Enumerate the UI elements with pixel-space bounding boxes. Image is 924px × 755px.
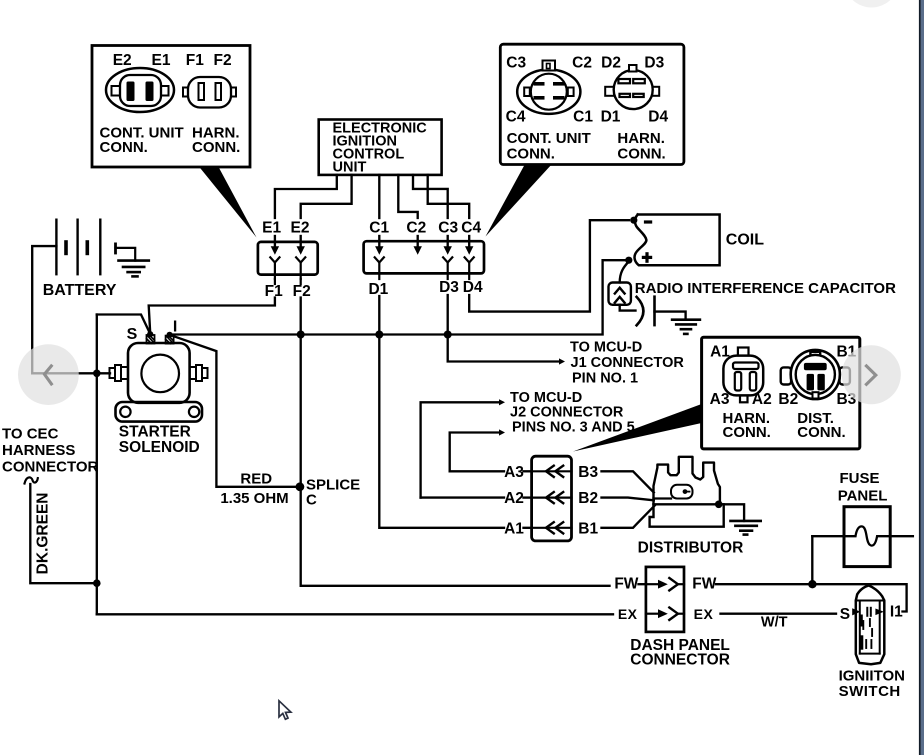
starter solenoid bracket bbox=[116, 402, 203, 422]
wire I terminal to coil positive bbox=[172, 260, 627, 334]
svg-text:F1: F1 bbox=[186, 52, 204, 69]
svg-text:CONN.: CONN. bbox=[100, 139, 148, 156]
svg-text:CONNECTOR: CONNECTOR bbox=[630, 652, 730, 669]
ground at distributor bbox=[731, 520, 761, 523]
svg-text:D1: D1 bbox=[601, 108, 621, 125]
wire B2 to distributor bbox=[602, 498, 654, 501]
connector drawing harn conn (2-pin) bbox=[183, 88, 189, 97]
connector drawing harn conn (3-pin) bbox=[738, 348, 749, 357]
wire connector to capacitor plate bbox=[620, 305, 636, 311]
svg-text:C1: C1 bbox=[369, 219, 389, 236]
distributor pickup detail bbox=[654, 497, 672, 499]
svg-text:CONN.: CONN. bbox=[617, 146, 665, 163]
node D3 crossing junction bbox=[444, 331, 452, 339]
callout pointer from box1 to E1 bbox=[199, 166, 257, 238]
node coil negative bbox=[630, 217, 637, 224]
callout pointer from box3 to A3 block bbox=[573, 404, 702, 452]
node DK.GREEN junction bbox=[93, 579, 101, 587]
capacitor straight plate bbox=[653, 297, 656, 325]
node coil positive bbox=[625, 257, 632, 264]
svg-text:S: S bbox=[840, 606, 850, 623]
svg-text:TO MCU-D: TO MCU-D bbox=[570, 340, 642, 356]
svg-text:F1: F1 bbox=[265, 283, 283, 300]
svg-text:FW: FW bbox=[692, 576, 716, 593]
svg-text:BATTERY: BATTERY bbox=[43, 282, 117, 299]
svg-text:A3: A3 bbox=[504, 464, 524, 481]
wire main left vertical bus bbox=[96, 315, 98, 615]
fuse panel box bbox=[844, 507, 890, 567]
squiggle to CEC harness bbox=[25, 477, 38, 483]
wire F2 through splice C to FW bbox=[301, 298, 610, 586]
connector drawing dist conn (3-pin) bbox=[781, 367, 791, 384]
distributor cap bbox=[654, 457, 720, 505]
wire ECU to E1 bbox=[275, 175, 337, 218]
wire DK.GREEN to CEC connector bbox=[30, 484, 97, 583]
pin arrow at x274.9 bbox=[274, 236, 276, 248]
svg-text:E2: E2 bbox=[291, 219, 310, 236]
svg-text:RADIO INTERFERENCE CAPACITOR: RADIO INTERFERENCE CAPACITOR bbox=[635, 280, 896, 297]
wire EX bus bbox=[97, 613, 613, 615]
wire B3 to distributor bbox=[602, 471, 654, 492]
svg-text:FUSE: FUSE bbox=[840, 470, 880, 487]
svg-text:C2: C2 bbox=[406, 219, 426, 236]
svg-text:D3: D3 bbox=[439, 279, 459, 296]
dash connector arrows y613.7 bbox=[646, 613, 659, 615]
svg-text:D4: D4 bbox=[648, 108, 668, 125]
starter solenoid right terminal bbox=[190, 367, 196, 379]
ignition switch S terminal bbox=[852, 608, 860, 615]
svg-text:B3: B3 bbox=[578, 464, 598, 481]
svg-text:C2: C2 bbox=[572, 55, 592, 72]
svg-text:J1 CONNECTOR: J1 CONNECTOR bbox=[571, 355, 685, 371]
coil minus mark bbox=[644, 220, 652, 223]
wire distributor to ground bbox=[654, 504, 745, 521]
svg-text:C: C bbox=[306, 491, 317, 508]
node FW fuse junction bbox=[808, 580, 816, 588]
svg-text:B2: B2 bbox=[778, 391, 798, 408]
pin arrow at x300.7 bbox=[300, 236, 302, 248]
svg-text:A2: A2 bbox=[504, 490, 524, 507]
battery bbox=[55, 220, 57, 275]
svg-text:E1: E1 bbox=[262, 219, 281, 236]
wire FW to ignition switch I1 bbox=[716, 584, 907, 611]
ignition switch inner lines bbox=[856, 600, 885, 602]
svg-text:I: I bbox=[173, 318, 177, 335]
nav button previous bbox=[18, 344, 79, 405]
starter solenoid core circle bbox=[141, 355, 179, 393]
wire A2 row bbox=[421, 496, 504, 498]
pin arrow at x379.3 bbox=[378, 236, 380, 248]
distributor body bbox=[650, 504, 724, 526]
svg-text:DK.GREEN: DK.GREEN bbox=[35, 492, 52, 574]
svg-text:CONN.: CONN. bbox=[797, 424, 845, 441]
svg-text:SOLENOID: SOLENOID bbox=[119, 439, 200, 456]
connector drawing harn conn (4-pin) bbox=[605, 87, 614, 96]
starter solenoid S stud bbox=[147, 335, 155, 344]
wire resistance RED 1.35 OHM bbox=[170, 335, 296, 487]
double chevron row y497.6 bbox=[532, 497, 572, 499]
connector block E-F bbox=[258, 242, 318, 275]
svg-text:I1: I1 bbox=[890, 603, 903, 620]
svg-text:B1: B1 bbox=[578, 520, 598, 537]
svg-text:STARTER: STARTER bbox=[119, 424, 191, 441]
starter solenoid left terminal bbox=[110, 368, 116, 378]
svg-text:D4: D4 bbox=[463, 279, 483, 296]
node F2 crossing junction bbox=[297, 331, 305, 339]
svg-text:DISTRIBUTOR: DISTRIBUTOR bbox=[638, 539, 744, 556]
callout box CONT UNIT / HARN CONN (C-D) bbox=[500, 44, 684, 164]
mouse cursor bbox=[279, 701, 291, 720]
wire A1 row link bbox=[524, 527, 532, 529]
dash connector arrows y584.2 bbox=[646, 583, 659, 585]
svg-text:E2: E2 bbox=[113, 52, 132, 69]
svg-text:C4: C4 bbox=[506, 108, 526, 125]
svg-text:PIN NO. 1: PIN NO. 1 bbox=[572, 370, 638, 386]
ground at capacitor bbox=[672, 318, 700, 321]
wire A3 row bbox=[450, 470, 504, 472]
wire battery positive to main junction bbox=[32, 246, 110, 373]
wire ECU to C3 bbox=[413, 175, 448, 218]
capacitor inline connector C1 bbox=[609, 283, 631, 305]
connector drawing cont unit conn (4-pin) bbox=[517, 70, 580, 114]
callout box HARN / DIST CONN (A-B) bbox=[702, 337, 860, 449]
svg-text:W/T: W/T bbox=[761, 614, 788, 630]
capacitor curved plate bbox=[637, 297, 644, 325]
connector drawing cont unit conn (2-pin) bbox=[106, 68, 174, 112]
svg-text:F2: F2 bbox=[214, 52, 232, 69]
node splice C bbox=[296, 482, 305, 491]
svg-text:CONT. UNIT: CONT. UNIT bbox=[507, 130, 591, 147]
coil plus mark bbox=[642, 256, 652, 259]
wire D3 to J1 callout bbox=[448, 295, 559, 362]
svg-text:E1: E1 bbox=[152, 52, 171, 69]
wire ECU to C4 bbox=[428, 175, 470, 218]
svg-text:TO CEC: TO CEC bbox=[2, 425, 59, 442]
electronic ignition control unit U1 bbox=[319, 120, 442, 175]
wire EX to ignition switch S bbox=[721, 613, 837, 615]
svg-text:A3: A3 bbox=[710, 391, 730, 408]
svg-text:C1: C1 bbox=[573, 108, 593, 125]
wire B1 to distributor bbox=[602, 505, 655, 527]
svg-text:IGNIITON: IGNIITON bbox=[839, 667, 905, 684]
svg-text:HARN.: HARN. bbox=[617, 130, 665, 147]
svg-text:PANEL: PANEL bbox=[838, 487, 888, 504]
svg-text:EX: EX bbox=[694, 606, 714, 622]
scroll strip right edge bbox=[919, 0, 921, 755]
svg-text:S: S bbox=[127, 326, 138, 343]
starter solenoid body bbox=[128, 343, 190, 403]
svg-text:CONN.: CONN. bbox=[507, 146, 555, 163]
node distributor ground junction bbox=[715, 501, 723, 509]
ignition switch body bbox=[856, 585, 885, 664]
svg-text:UNIT: UNIT bbox=[333, 160, 367, 176]
wire ECU to E2 bbox=[301, 175, 352, 218]
svg-text:1.35 OHM: 1.35 OHM bbox=[220, 490, 288, 507]
wire A2 to J2 callout bbox=[421, 402, 499, 497]
pin arrow at x469.2 bbox=[468, 236, 470, 248]
wire coil positive to capacitor connector bbox=[620, 262, 629, 283]
svg-text:A2: A2 bbox=[752, 391, 772, 408]
svg-text:J2 CONNECTOR: J2 CONNECTOR bbox=[510, 404, 624, 420]
svg-text:D3: D3 bbox=[644, 55, 664, 72]
svg-text:F2: F2 bbox=[293, 283, 311, 300]
fuse F1 element bbox=[812, 526, 913, 545]
ignition switch contact dashes bbox=[866, 608, 868, 616]
pin arrow at x417.7 bbox=[417, 236, 419, 248]
svg-text:C4: C4 bbox=[461, 219, 481, 236]
pin arrow at x447.7 bbox=[447, 236, 449, 248]
wire ECU to C2 bbox=[398, 175, 417, 218]
dash panel connector block bbox=[646, 567, 684, 632]
svg-text:EX: EX bbox=[618, 606, 638, 622]
svg-text:SWITCH: SWITCH bbox=[839, 683, 901, 700]
wire D1 to A1 bbox=[379, 296, 504, 528]
ignition switch I1 terminal bbox=[875, 609, 884, 616]
svg-text:CONN.: CONN. bbox=[192, 139, 240, 156]
svg-text:FW: FW bbox=[614, 576, 638, 593]
double chevron row y471.3 bbox=[532, 470, 572, 472]
partial button top right bbox=[844, 0, 899, 8]
node battery junction bbox=[93, 370, 101, 378]
connector block C-D bbox=[364, 241, 484, 273]
wire battery bus to S terminal bbox=[97, 315, 150, 334]
wire fuse panel feed bbox=[811, 536, 813, 584]
svg-text:CONN.: CONN. bbox=[723, 424, 771, 441]
svg-text:RED: RED bbox=[240, 471, 272, 488]
callout box CONT UNIT / HARN CONN (E-F) bbox=[92, 46, 250, 168]
coil body bbox=[635, 215, 720, 266]
svg-text:HARNESS: HARNESS bbox=[2, 442, 75, 459]
starter solenoid I stud bbox=[166, 336, 174, 344]
svg-text:PINS NO. 3 AND 5: PINS NO. 3 AND 5 bbox=[512, 420, 635, 436]
wire A3 to J2 pins callout bbox=[450, 433, 499, 472]
callout pointer from box2 to C4 bbox=[486, 164, 553, 237]
ground at battery bbox=[116, 248, 136, 261]
svg-text:C3: C3 bbox=[506, 55, 526, 72]
wire FW link into dash connector bbox=[639, 583, 646, 585]
nav button next bbox=[842, 345, 901, 404]
wire capacitor to ground bbox=[655, 312, 686, 320]
wire ECU to C1 bbox=[378, 175, 380, 218]
connector block A-B bbox=[532, 456, 572, 541]
svg-text:A1: A1 bbox=[504, 520, 524, 537]
wire D4 to coil negative bbox=[469, 220, 629, 311]
svg-text:CONNECTOR: CONNECTOR bbox=[2, 458, 99, 475]
svg-text:B2: B2 bbox=[578, 490, 598, 507]
node D1 crossing junction bbox=[375, 331, 383, 339]
svg-text:D2: D2 bbox=[601, 55, 621, 72]
double chevron row y527.8 bbox=[532, 527, 572, 529]
svg-text:COIL: COIL bbox=[726, 232, 764, 249]
svg-text:C3: C3 bbox=[438, 219, 458, 236]
wire F1 to S terminal bbox=[149, 298, 275, 333]
